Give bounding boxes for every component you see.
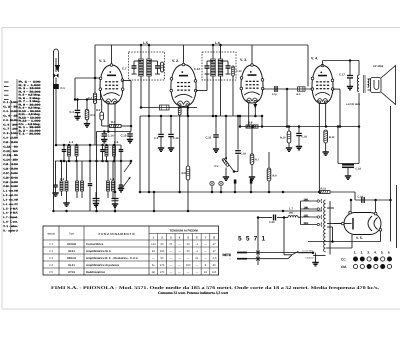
IF transformer L5	[129, 45, 165, 80]
svg-text:T.5935/425: T.5935/425	[305, 257, 314, 260]
svg-text:C.16 · 25.000: C.16 · 25.000	[3, 168, 18, 171]
coil L3	[105, 140, 119, 161]
resistor R8	[246, 121, 258, 129]
wire C18 feeds	[338, 127, 359, 164]
wire HT line	[350, 199, 392, 213]
svg-text:R.13: R.13	[321, 187, 327, 190]
svg-text:CC.: CC.	[341, 258, 347, 262]
speaker horn	[381, 66, 396, 105]
svg-text:—: —	[187, 271, 190, 274]
svg-text:R.9: R.9	[273, 175, 278, 178]
svg-text:C.13 · 50: C.13 · 50	[3, 154, 19, 157]
capacitor C17	[339, 73, 353, 90]
svg-text:AP 4082: AP 4082	[373, 65, 384, 68]
resistor V2 cathode	[178, 105, 181, 193]
svg-text:60: 60	[161, 243, 164, 246]
coil L1	[68, 140, 79, 161]
wire B+ rail	[239, 115, 359, 128]
svg-text:C.14: C.14	[108, 134, 114, 138]
wire transformer stub c	[327, 227, 334, 243]
coil L4	[107, 161, 115, 198]
capacitor C4	[100, 145, 105, 161]
capacitor C20	[257, 215, 288, 225]
wire detector line	[263, 88, 313, 90]
svg-text:V. 1.: V. 1.	[99, 59, 106, 63]
capacitor C19	[358, 196, 365, 204]
wire V4 plate	[323, 59, 360, 75]
antenna	[54, 49, 61, 211]
svg-text:C.18: C.18	[356, 168, 362, 171]
svg-text:—: —	[178, 264, 181, 267]
output transformer L8	[357, 61, 370, 94]
svg-text:UF41: UF41	[68, 249, 75, 253]
svg-text:C.13: C.13	[236, 70, 242, 73]
svg-text:115: 115	[212, 271, 217, 274]
svg-text:CM.: CM.	[341, 265, 347, 269]
svg-text:V. 2.: V. 2.	[172, 59, 179, 63]
svg-text:42: 42	[152, 250, 155, 253]
wire pot feed	[225, 115, 228, 134]
svg-text:R.13 ·· 1.000: R.13 ·· 1.000	[19, 120, 42, 123]
svg-text:UBC41: UBC41	[67, 256, 77, 260]
svg-text:C.18 · 32+32: C.18 · 32+32	[3, 176, 18, 179]
resistor R3	[110, 120, 133, 128]
wire heater rail	[140, 191, 321, 194]
svg-text:C. 9 · 10.000: C. 9 · 10.000	[3, 137, 18, 140]
transformer voltage taps	[301, 198, 322, 226]
svg-text:T. 1 · alim.: T. 1 · alim.	[3, 225, 18, 228]
label C12	[194, 67, 200, 71]
wire far border	[391, 185, 397, 248]
transformer ground	[302, 250, 326, 266]
resistor R13	[320, 187, 356, 200]
svg-text:C.14 · 250: C.14 · 250	[3, 159, 19, 162]
wire V4 screen	[333, 89, 342, 128]
wire ground rail	[52, 210, 322, 213]
svg-text:—: —	[169, 250, 172, 253]
svg-text:R.2: R.2	[96, 108, 101, 112]
label V2	[172, 59, 179, 63]
table rows	[49, 242, 217, 274]
trimmer T2	[112, 199, 119, 208]
capacitor C coupling	[272, 86, 277, 96]
wire aux vertical	[257, 218, 259, 266]
resistor R12	[322, 102, 335, 155]
svg-text:—: —	[152, 257, 155, 260]
svg-text:0,7µ: 0,7µ	[272, 93, 277, 96]
capacitor C18	[342, 164, 362, 180]
dial lamp 1	[210, 181, 214, 192]
wire screen rail	[139, 115, 264, 194]
wire top rail	[95, 44, 308, 87]
svg-text:C. 3 · 10.000: C. 3 · 10.000	[3, 110, 18, 113]
tube V2	[170, 63, 197, 106]
caption line 2	[158, 291, 229, 295]
svg-text:P.V. ·· 0,5 Meg.: P.V. ·· 0,5 Meg.	[19, 123, 41, 126]
tuning arrow 2	[123, 177, 131, 187]
resistor R2	[96, 100, 110, 127]
svg-text:6.: 6.	[388, 251, 391, 255]
svg-text:T. 1 ·· 30.000: T. 1 ·· 30.000	[19, 133, 42, 136]
svg-text:—: —	[187, 257, 190, 260]
svg-text:C.15: C.15	[206, 137, 212, 140]
svg-text:—: —	[178, 243, 181, 246]
coil L2b	[76, 161, 84, 198]
dial lamp 2	[219, 181, 223, 192]
svg-text:175: 175	[160, 264, 165, 267]
svg-text:L.2: L.2	[60, 177, 65, 181]
svg-text:—: —	[178, 257, 181, 260]
svg-text:S. 2 ·· 10.000: S. 2 ·· 10.000	[19, 129, 42, 132]
svg-text:40: 40	[213, 264, 216, 267]
svg-text:170: 170	[160, 271, 165, 274]
svg-text:V. 4.: V. 4.	[311, 57, 318, 61]
svg-text:C.10: C.10	[173, 137, 179, 140]
resistor R6	[232, 66, 242, 116]
svg-text:—: —	[204, 257, 207, 260]
tube V4	[311, 64, 334, 103]
svg-text:Amplificatrice B. F. - Rivelat: Amplificatrice B. F. - Rivelatrice - C.A…	[86, 256, 138, 260]
svg-text:C.7: C.7	[122, 67, 127, 71]
svg-text:R.5: R.5	[182, 171, 187, 175]
svg-text:R.11 ·· 0,5 Meg.: R.11 ·· 0,5 Meg.	[19, 113, 41, 116]
svg-text:S. 1 ·· 25.000: S. 1 ·· 25.000	[19, 126, 42, 129]
svg-text:V 4: V 4	[49, 264, 54, 267]
svg-text:V. 3.: V. 3.	[240, 58, 247, 62]
svg-text:—: —	[204, 243, 207, 246]
speaker driver	[371, 78, 382, 93]
svg-text:R.1: R.1	[91, 113, 96, 117]
svg-text:UCH42: UCH42	[67, 242, 77, 246]
svg-text:3.: 3.	[367, 251, 370, 255]
svg-text:L.1: L.1	[69, 140, 74, 144]
svg-text:37: 37	[213, 243, 216, 246]
wire det junction	[286, 88, 289, 127]
svg-text:—: —	[195, 271, 198, 274]
label V3	[240, 58, 247, 62]
switch crossing marks	[256, 251, 260, 261]
capacitor C10a	[168, 116, 179, 151]
svg-text:70: 70	[169, 243, 172, 246]
svg-text:—: —	[169, 257, 172, 260]
capacitor C16 det	[234, 115, 247, 172]
wire left vertical 1	[95, 132, 98, 213]
rectifier tube V5	[342, 211, 382, 234]
parts list top dashes	[4, 82, 9, 100]
wire transformer stub a	[327, 207, 334, 209]
wire V5 plate feed	[334, 223, 341, 225]
svg-text:L. 2 · ant. OC: L. 2 · ant. OC	[3, 194, 18, 197]
svg-text:C.20 · 5.000: C.20 · 5.000	[3, 185, 18, 188]
capacitor C2	[52, 161, 58, 196]
capacitor C6	[118, 162, 124, 192]
svg-text:P.V.: P.V.	[215, 165, 220, 168]
svg-text:V 5: V 5	[49, 271, 54, 274]
parts list resistors	[17, 79, 42, 137]
tube V1	[99, 64, 124, 104]
power transformer T1	[324, 200, 331, 255]
svg-text:L. 1 · ant. OM: L. 1 · ant. OM	[3, 190, 18, 193]
wire L7 riser	[283, 216, 292, 255]
label C7	[122, 67, 127, 71]
tube V3	[240, 64, 264, 103]
wire antenna coupling	[75, 77, 101, 145]
svg-text:R. 2 ·· 1.000: R. 2 ·· 1.000	[19, 84, 42, 87]
svg-text:37: 37	[213, 250, 216, 253]
svg-text:R. 3 ·· 15.000: R. 3 ·· 15.000	[19, 87, 42, 90]
capacitor C14	[101, 132, 114, 143]
svg-text:R.10: R.10	[280, 137, 286, 140]
svg-text:Valvola: Valvola	[47, 233, 55, 236]
label V1	[99, 59, 106, 63]
wire V5 heater	[326, 235, 352, 249]
connector pin 1	[234, 180, 237, 193]
mains plug	[223, 253, 248, 262]
svg-text:C.19: C.19	[358, 196, 364, 199]
capacitor C2a	[62, 144, 67, 163]
capacitor C16b	[296, 127, 308, 150]
capacitor C15b	[206, 116, 220, 152]
diode arrow	[253, 104, 257, 109]
svg-text:R. 4 ·· 50.000: R. 4 ·· 50.000	[19, 90, 42, 93]
svg-text:V 2: V 2	[49, 250, 54, 253]
svg-text:—: —	[178, 250, 181, 253]
svg-text:C.20: C.20	[269, 221, 275, 224]
label L6	[215, 41, 220, 45]
svg-text:F U N Z I O N A M E N T O: F U N Z I O N A M E N T O	[98, 232, 135, 236]
wire V2 screen	[186, 105, 188, 116]
svg-text:C.16: C.16	[241, 153, 247, 156]
wire mains lower	[247, 255, 292, 259]
svg-text:5.: 5.	[381, 251, 384, 255]
wire V3 bottoms	[249, 102, 257, 127]
tuning arrow 1	[124, 162, 132, 172]
svg-text:5 5 7 1: 5 5 7 1	[238, 236, 266, 243]
svg-text:V. 5.: V. 5.	[356, 236, 363, 240]
wire lamp drop	[153, 192, 155, 211]
wire grid leak node	[97, 81, 132, 133]
svg-text:L.3: L.3	[114, 140, 119, 144]
svg-text:C.1: C.1	[61, 86, 66, 90]
svg-text:C. 4 · 25: C. 4 · 25	[3, 114, 19, 117]
svg-text:L.8 T/R 1623: L.8 T/R 1623	[346, 103, 361, 106]
svg-text:C.12: C.12	[194, 67, 200, 71]
svg-text:~: ~	[229, 257, 231, 261]
svg-text:L. 8 · T. usc.: L. 8 · T. usc.	[3, 221, 18, 224]
potentiometer P.V.	[215, 134, 236, 181]
svg-text:Consumo 32 watt. Potenza indi: Consumo 32 watt. Potenza indistorta 3,3 …	[158, 291, 229, 295]
svg-text:R. 5 ·· 0,5 Meg.: R. 5 ·· 0,5 Meg.	[19, 94, 41, 97]
model number 5571	[238, 236, 266, 243]
svg-text:C. 5 · 50.000: C. 5 · 50.000	[3, 119, 18, 122]
IF transformer L6	[202, 45, 236, 80]
svg-text:1.: 1.	[354, 251, 357, 255]
svg-text:Convertitrice: Convertitrice	[86, 242, 104, 246]
resistor R9	[267, 152, 277, 193]
svg-text:Amplificatrice M. F.: Amplificatrice M. F.	[86, 249, 112, 253]
capacitor C1	[53, 84, 65, 145]
wire V2 to L6	[196, 68, 207, 90]
resistor R5	[182, 108, 190, 213]
phono jack	[160, 105, 170, 110]
wire left vertical 2	[88, 144, 93, 211]
capacitor C3	[70, 100, 81, 120]
svg-text:V 3: V 3	[49, 257, 54, 260]
svg-text:R.7: R.7	[255, 159, 260, 162]
svg-text:C.5: C.5	[154, 137, 159, 140]
svg-text:(00): (00)	[289, 212, 293, 215]
svg-text:L. 5 · 1ª M.F.: L. 5 · 1ª M.F.	[3, 207, 18, 210]
mains switch	[292, 251, 314, 255]
svg-text:V 1: V 1	[49, 243, 54, 246]
capacitor C15	[121, 132, 134, 143]
svg-text:L. 4 · osc. OC: L. 4 · osc. OC	[3, 203, 18, 206]
resistor R4	[88, 93, 97, 104]
svg-text:2.: 2.	[361, 251, 364, 255]
label transformer	[346, 103, 361, 106]
svg-text:L. 7 · imped.: L. 7 · imped.	[3, 216, 18, 219]
svg-text:—: —	[178, 271, 181, 274]
wire mains to junction	[247, 252, 313, 254]
svg-text:C. 8 · 5.000: C. 8 · 5.000	[3, 132, 18, 135]
wire L5 bottoms	[140, 76, 151, 193]
svg-text:Amplificatrice di potenza: Amplificatrice di potenza	[86, 263, 120, 267]
svg-text:L.5: L.5	[143, 41, 148, 45]
svg-text:R.10 ·· 50.000: R.10 ·· 50.000	[19, 110, 42, 113]
svg-text:UY41: UY41	[68, 270, 75, 274]
wire B+ to OT	[358, 93, 361, 164]
switch position legend	[341, 251, 392, 270]
svg-text:C. 1 · 5.000: C. 1 · 5.000	[3, 101, 18, 104]
svg-text:M.V.DE.9645: M.V.DE.9645	[302, 250, 313, 253]
svg-text:V. · serie U: V. · serie U	[3, 229, 18, 232]
svg-text:50: 50	[187, 250, 190, 253]
resistor R1	[84, 100, 95, 128]
svg-text:C.19 · 10.000: C.19 · 10.000	[3, 181, 18, 184]
svg-text:Tipo: Tipo	[69, 232, 75, 236]
svg-text:R. 6 ·· 2 Meg.: R. 6 ·· 2 Meg.	[19, 97, 42, 100]
wire coil top rail	[55, 144, 121, 147]
svg-text:—: —	[204, 250, 207, 253]
wire coil mid rail	[55, 160, 132, 163]
svg-text:C.11 · 50: C.11 · 50	[3, 145, 19, 148]
capacitor C8	[119, 145, 124, 161]
table header	[47, 228, 215, 239]
svg-text:TENSIONI AI PIEDINI: TENSIONI AI PIEDINI	[170, 228, 199, 232]
svg-text:—: —	[195, 264, 198, 267]
wire V5 cathode out	[308, 232, 381, 242]
svg-text:124: 124	[151, 243, 156, 246]
svg-text:R.12: R.12	[329, 136, 335, 139]
svg-text:32: 32	[187, 243, 190, 246]
svg-text:C.15 · 10.000: C.15 · 10.000	[3, 163, 18, 166]
svg-text:150: 150	[160, 250, 165, 253]
svg-text:C.16: C.16	[302, 136, 308, 139]
svg-text:50: 50	[161, 257, 164, 260]
wire right border	[381, 106, 391, 242]
svg-text:R. 1 ·· 100: R. 1 ·· 100	[19, 81, 42, 84]
trimmer T1	[93, 192, 100, 207]
svg-text:R. 9 ·· 0,3 Meg.: R. 9 ·· 0,3 Meg.	[19, 107, 41, 110]
wire V4 bottom heater	[318, 102, 321, 193]
label L5	[143, 41, 148, 45]
label V4	[311, 57, 318, 61]
wire jack rail	[141, 106, 197, 109]
svg-text:C.3: C.3	[70, 110, 75, 114]
table grid	[43, 226, 219, 275]
wire transformer stub b	[327, 223, 341, 225]
caption line 1	[51, 285, 379, 290]
svg-text:31: 31	[195, 257, 198, 260]
coil L2	[60, 161, 70, 206]
wire V1 grid node	[74, 90, 102, 101]
svg-text:L. 3 · osc. OM: L. 3 · osc. OM	[3, 198, 18, 201]
svg-text:FIMI S.A. - PHONOLA - Mod.: FIMI S.A. - PHONOLA - Mod. 5571. Onde me…	[51, 285, 379, 290]
svg-text:—: —	[169, 264, 172, 267]
svg-text:R.12 ·· 10.000: R.12 ·· 10.000	[19, 116, 42, 119]
capacitor B.F.	[297, 87, 306, 96]
svg-text:-0,5: -0,5	[212, 257, 217, 260]
wire L6 bottoms	[212, 76, 221, 117]
svg-text:R. 7 ·· 1 Meg.: R. 7 ·· 1 Meg.	[19, 100, 42, 103]
svg-text:C.17: C.17	[339, 73, 345, 77]
capacitor C5	[154, 116, 164, 151]
svg-text:C.15: C.15	[121, 134, 127, 138]
wire V1 cathode drops	[108, 103, 116, 213]
parts list capacitors	[3, 100, 19, 233]
svg-text:C. 7 · 100: C. 7 · 100	[3, 128, 19, 131]
svg-text:41: 41	[204, 271, 207, 274]
svg-text:C.12 · 100: C.12 · 100	[3, 150, 19, 153]
svg-text:C. 6 · 200: C. 6 · 200	[3, 123, 19, 126]
svg-text:UL41: UL41	[68, 263, 75, 267]
svg-text:4.: 4.	[374, 251, 377, 255]
coil L7	[288, 207, 301, 218]
svg-text:L.6: L.6	[215, 41, 220, 45]
svg-text:C. 2 · 50: C. 2 · 50	[3, 106, 19, 109]
svg-text:C.17 · 5.000: C.17 · 5.000	[3, 172, 18, 175]
svg-text:—: —	[169, 271, 172, 274]
svg-text:C.10 · 25.000: C.10 · 25.000	[3, 141, 18, 144]
svg-text:(a): (a)	[152, 271, 155, 274]
svg-text:L. 6 · 2ª M.F.: L. 6 · 2ª M.F.	[3, 212, 18, 215]
label V5	[356, 236, 363, 240]
svg-text:R. 8 ·· 20.000: R. 8 ·· 20.000	[19, 103, 42, 106]
connector pin 2	[250, 180, 253, 193]
svg-text:L.4: L.4	[110, 177, 115, 181]
svg-text:150: 150	[186, 264, 191, 267]
resistor R10	[280, 127, 292, 152]
label speaker	[373, 65, 384, 68]
resistor R7	[249, 127, 260, 181]
svg-text:Raddrizzatrice: Raddrizzatrice	[86, 270, 106, 274]
svg-text:B.F.: B.F.	[297, 93, 302, 96]
svg-text:L.7: L.7	[289, 207, 293, 211]
